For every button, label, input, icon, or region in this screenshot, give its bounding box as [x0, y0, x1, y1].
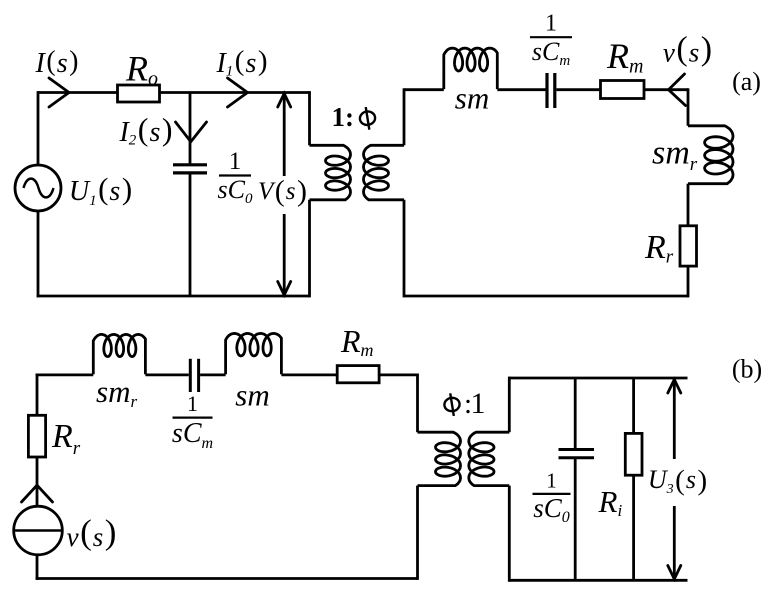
wire: Ri branch lower: [632, 475, 635, 580]
svg-text:I(​s)​: I(​s)​: [35, 46, 79, 79]
inductor sm (b): [226, 333, 282, 374]
resistor Rr (a): [680, 226, 697, 266]
wire: (b) top rail seg3: [200, 373, 226, 376]
inductor smr (a) vertical: [688, 126, 733, 184]
wire: (a) left wire upper: [37, 91, 40, 165]
transformer (a) primary coil: [310, 145, 351, 200]
wire: (b) top rail seg5: [379, 373, 417, 376]
inductor sm (a): [444, 48, 498, 89]
U3(s) measuring arrow line lower: [673, 506, 676, 579]
label V(s) on white patch: [262, 177, 308, 211]
V(s) arrowhead down: [278, 282, 291, 296]
wire: Ri branch upper: [632, 378, 635, 433]
V(s) measuring arrow line upper: [283, 94, 286, 177]
wire: (b) transformer left wire upper: [416, 374, 419, 433]
arrow I1(s) on top rail: [228, 78, 248, 107]
resistor Ri (b): [625, 433, 642, 475]
wire: capacitor C0 (b) branch lower: [574, 458, 577, 581]
wire: (a) top rail middle segment (R0 to I1 to node): [160, 91, 310, 94]
arrow I2(s) pointing down: [176, 122, 207, 142]
arrow I(s) on top rail: [49, 78, 69, 107]
wire: (a) left wire lower: [37, 211, 40, 297]
resistor Rr (b): [28, 415, 45, 457]
svg-text:U1​(​s)​: U1​(​s)​: [69, 171, 132, 209]
source v(s) circle: [14, 506, 63, 555]
svg-text:1: 1: [187, 391, 198, 416]
svg-text:1: 1: [471, 387, 486, 420]
svg-text:sm: sm: [235, 378, 269, 413]
svg-text:1: 1: [546, 468, 557, 492]
wire: (a) secondary bottom rail: [404, 295, 688, 298]
transformer (b) primary coil: [418, 432, 461, 485]
svg-text:I2​(​s)​: I2​(​s)​: [118, 111, 172, 149]
wire: (b) left wire bottom: [36, 555, 39, 580]
capacitor Cm (a) left plate: [545, 73, 548, 108]
arrow up above v(s) source: [22, 485, 53, 502]
wire: (a) bottom rail: [37, 295, 310, 298]
resistor Rm (b): [337, 366, 379, 383]
capacitor C0 bottom plate: [173, 171, 207, 174]
wire: (a) secondary left wire upper: [403, 88, 406, 145]
wire: capacitor C0 branch upper: [189, 93, 192, 165]
capacitor Cm (a) right plate: [553, 73, 556, 108]
svg-text:1:: 1:: [332, 102, 355, 132]
capacitor C0 top plate: [173, 163, 207, 166]
svg-text:(a): (a): [732, 67, 761, 96]
svg-text:(b): (b): [732, 355, 762, 384]
wire: (b) right loop top rail: [509, 377, 687, 380]
wire: (b) right loop left wire lower: [508, 486, 511, 582]
source v(s) horizontal bar: [14, 529, 63, 531]
U3(s) arrowhead down: [668, 566, 681, 580]
AC source sine wave: [24, 179, 54, 198]
wire: (a) secondary top rail seg1: [404, 88, 444, 91]
capacitor C0 (b) top plate: [559, 448, 595, 451]
wire: (a) right side wire middle: [687, 184, 690, 226]
U3(s) arrowhead up: [668, 380, 681, 394]
svg-text:I1​(​s)​: I1​(​s)​: [215, 45, 267, 80]
resistor R0: [118, 85, 160, 102]
wire: (a) top rail left segment: [38, 91, 118, 94]
capacitor C0 (b) bottom plate: [559, 456, 595, 459]
wire: (a) secondary top rail seg4: [644, 88, 688, 91]
wire: (a) right side wire lower: [687, 266, 690, 297]
wire: (b) top rail seg4: [281, 373, 337, 376]
transformer (b) secondary coil: [469, 432, 510, 485]
capacitor Cm (b) right plate: [197, 359, 200, 392]
wire: (a) secondary left wire lower: [403, 200, 406, 298]
wire: (b) top rail seg1: [36, 373, 94, 376]
wire: (b) right loop bottom rail: [509, 579, 687, 582]
wire: capacitor C0 branch lower: [189, 173, 192, 296]
U3(s) measuring arrow line upper: [673, 380, 676, 460]
V(s) measuring arrow line lower: [283, 214, 286, 295]
wire: (a) primary right wire lower: [308, 200, 311, 298]
wire: (a) secondary top rail seg2: [497, 88, 545, 91]
AC source U1 circle: [15, 165, 61, 211]
svg-text:V(​s)​: V(​s)​: [258, 175, 307, 208]
capacitor Cm (b) left plate: [189, 359, 192, 392]
svg-text:U3​(​s)​: U3​(​s)​: [648, 465, 707, 498]
wire: capacitor C0 (b) branch upper: [574, 378, 577, 449]
inductor smr (b): [93, 334, 145, 374]
arrow v(s) pointing left at corner: [669, 74, 686, 106]
svg-text:1: 1: [545, 11, 557, 37]
wire: (b) top rail seg2: [145, 373, 188, 376]
transformer (a) secondary coil: [364, 145, 405, 200]
label U3(s) on white patch: [647, 459, 710, 505]
V(s) arrowhead up: [278, 94, 291, 108]
wire: (b) right loop left wire upper: [508, 377, 511, 433]
wire: (b) bottom rail left loop: [36, 577, 418, 580]
label phi:1: [443, 392, 462, 417]
wire: (b) left loop left wire upper: [36, 374, 39, 416]
wire: (a) right side wire upper: [687, 88, 690, 126]
svg-text:1: 1: [229, 148, 242, 175]
wire: (a) primary right wire upper: [308, 91, 311, 145]
wire: (a) secondary top rail seg3: [557, 88, 601, 91]
svg-text:sm: sm: [455, 81, 489, 116]
wire: (b) left wire below Rr: [36, 457, 39, 507]
resistor Rm (a): [601, 81, 645, 99]
wire: (b) transformer left wire lower: [416, 486, 419, 580]
